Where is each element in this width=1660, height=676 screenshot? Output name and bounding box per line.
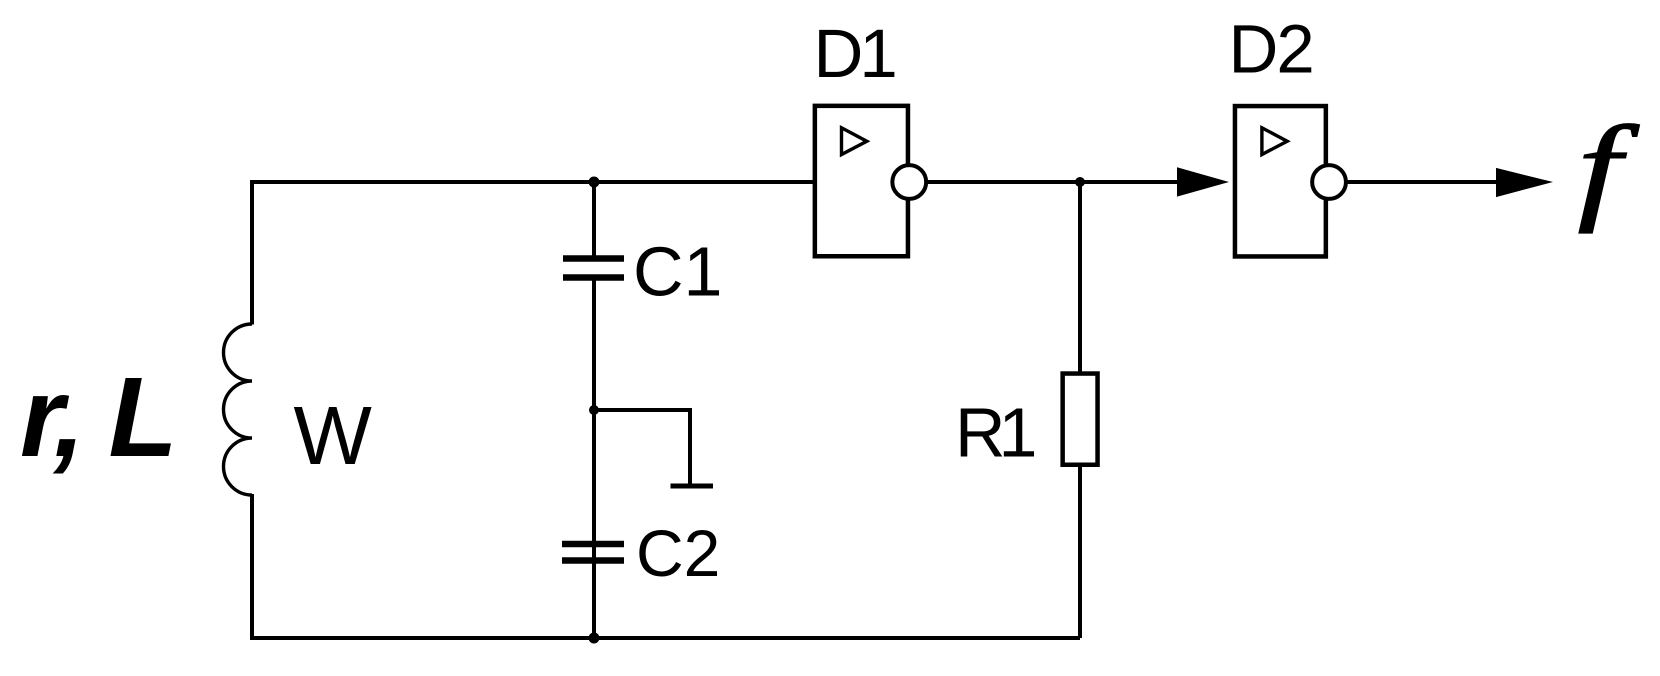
- svg-text:W: W: [294, 389, 373, 482]
- svg-text:C1: C1: [633, 233, 722, 311]
- svg-text:D1: D1: [814, 15, 895, 92]
- svg-text:C2: C2: [636, 516, 720, 590]
- svg-text:D2: D2: [1229, 11, 1313, 88]
- svg-text:r, L: r, L: [20, 354, 174, 480]
- svg-text:R1: R1: [955, 394, 1035, 472]
